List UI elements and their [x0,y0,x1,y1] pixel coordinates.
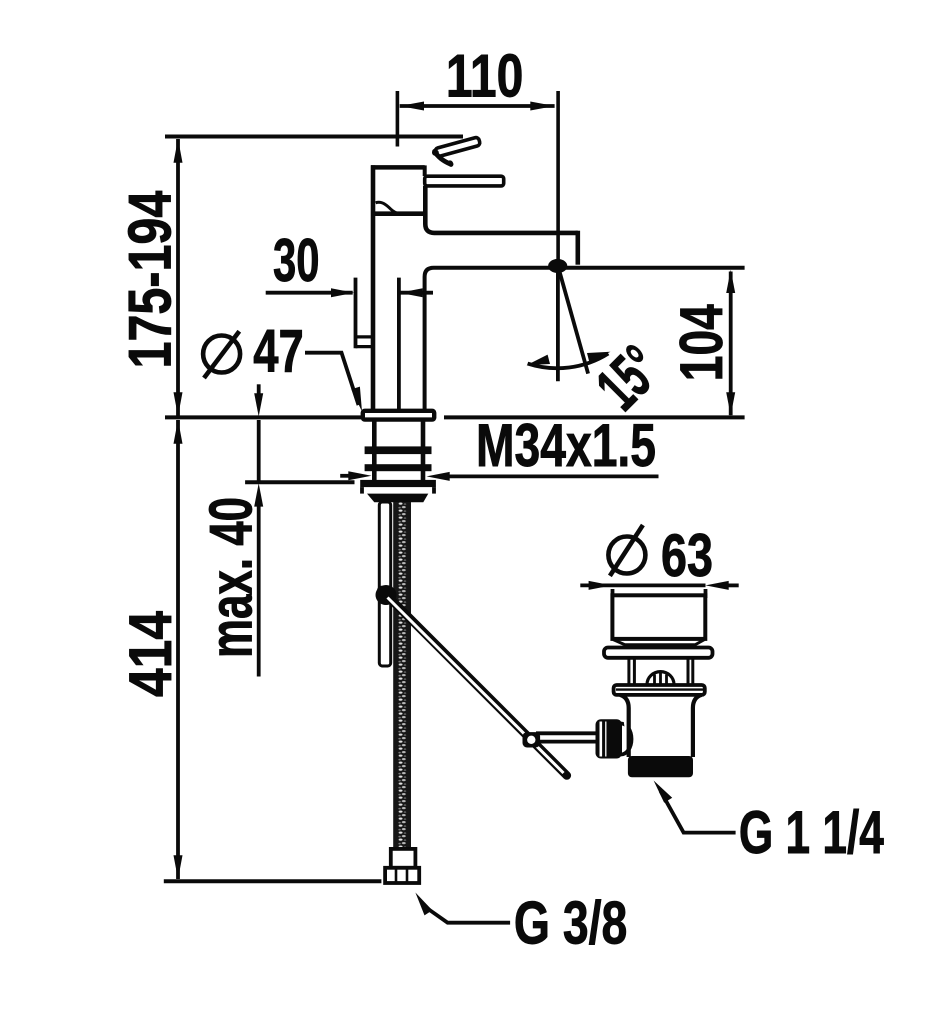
svg-text:110: 110 [446,43,524,110]
svg-text:63: 63 [661,522,713,589]
svg-text:104: 104 [668,304,735,381]
svg-text:47: 47 [253,318,304,385]
svg-text:414: 414 [117,610,184,697]
svg-text:175-194: 175-194 [117,190,184,368]
svg-text:M34x1.5: M34x1.5 [476,412,656,479]
svg-text:30: 30 [273,227,320,294]
svg-text:G 1 1/4: G 1 1/4 [739,799,884,866]
svg-text:G 3/8: G 3/8 [514,890,628,957]
svg-text:max. 40: max. 40 [198,497,265,658]
